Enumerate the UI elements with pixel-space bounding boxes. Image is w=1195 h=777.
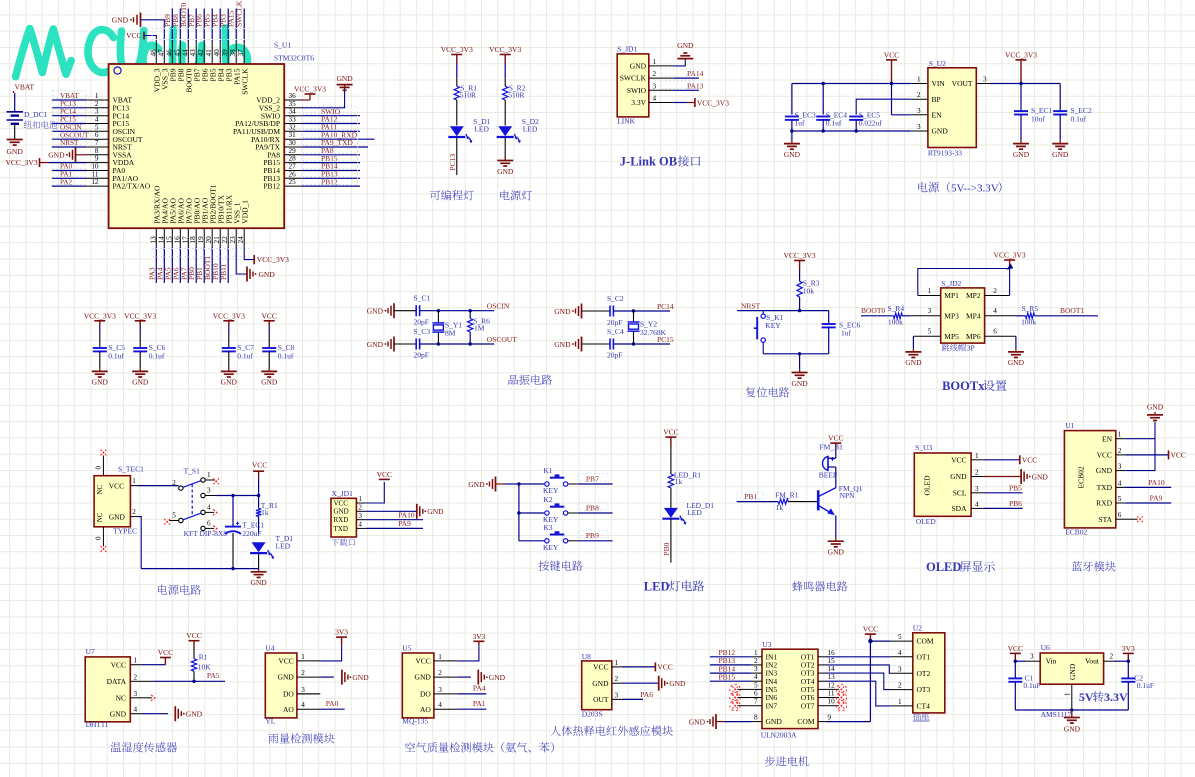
svg-text:PB7: PB7 <box>586 474 599 483</box>
wire EC1 to ground <box>1020 115 1022 141</box>
svg-text:AO: AO <box>420 705 431 714</box>
pin 2 PC13 <box>86 107 109 109</box>
svg-text:YL: YL <box>265 717 275 726</box>
wire VCC to COM <box>869 634 871 641</box>
svg-text:VCC: VCC <box>415 657 430 666</box>
svg-text:RT9193-33: RT9193-33 <box>928 149 962 158</box>
svg-text:U3: U3 <box>762 640 771 649</box>
svg-text:4: 4 <box>359 522 363 529</box>
svg-text:6: 6 <box>95 131 99 139</box>
svg-text:2: 2 <box>134 673 138 681</box>
wire bottom rail ams <box>1015 709 1128 711</box>
svg-text:VCC: VCC <box>252 461 267 470</box>
pin 3 VOUT <box>976 83 990 85</box>
svg-text:19: 19 <box>197 236 205 244</box>
svg-text:S_C4: S_C4 <box>607 327 624 336</box>
svg-text:GND: GND <box>186 710 203 719</box>
svg-text:2: 2 <box>95 100 99 108</box>
caption 晶振电路 <box>509 375 519 385</box>
wire T_D1 to rail <box>258 553 260 569</box>
wire net PA1 <box>52 177 86 179</box>
wire VDDA <box>49 162 86 164</box>
wire VCC to switch <box>138 485 179 487</box>
wire net SWIO <box>302 115 361 117</box>
svg-text:3: 3 <box>207 487 211 495</box>
svg-text:VOUT: VOUT <box>952 79 973 88</box>
svg-text:20pF: 20pF <box>414 351 429 360</box>
svg-text:NC: NC <box>96 512 104 522</box>
svg-text:GND: GND <box>592 679 609 688</box>
no connect IN5 <box>737 688 751 690</box>
wire GND uln <box>725 721 752 723</box>
svg-text:GND: GND <box>92 378 109 387</box>
svg-text:U8: U8 <box>582 652 591 661</box>
svg-text:VCC_3V3: VCC_3V3 <box>697 98 729 107</box>
regulator U6 AMS1117 <box>1040 653 1103 684</box>
svg-text:D203S: D203S <box>582 709 603 718</box>
svg-text:OT3: OT3 <box>917 685 931 694</box>
pin 43 PB7 <box>195 42 197 64</box>
key K2 <box>519 512 545 514</box>
ground below S_C8 <box>268 368 270 371</box>
wire net PB3 <box>227 9 229 43</box>
svg-text:4: 4 <box>898 649 902 657</box>
pin 26 PB13 <box>284 177 301 179</box>
svg-text:VCC_3V3: VCC_3V3 <box>994 251 1026 260</box>
svg-text:2: 2 <box>917 91 921 99</box>
svg-text:OT7: OT7 <box>801 701 815 710</box>
pin 3 GND <box>1116 470 1125 472</box>
pin 2 GND <box>971 476 983 478</box>
svg-text:10k: 10k <box>803 287 815 296</box>
wire net PA11 <box>302 130 361 132</box>
wire net PA10_RXD <box>302 138 375 140</box>
pin 2 GND <box>356 510 365 512</box>
svg-text:S_R4: S_R4 <box>888 304 905 313</box>
svg-text:3: 3 <box>134 690 138 698</box>
pin 24 VDD_1 <box>243 228 245 246</box>
pin 12 PA2/TX/AO <box>86 185 109 187</box>
svg-text:GND: GND <box>791 379 808 388</box>
no connect OT5 <box>826 688 839 690</box>
pin 41 PB5 <box>211 42 213 64</box>
svg-text:GND: GND <box>1013 150 1030 159</box>
crystal S_Y2 32.768K <box>633 311 635 322</box>
svg-text:T_S1: T_S1 <box>184 467 201 476</box>
pin 6 IN6 <box>752 697 762 699</box>
connector TEC1 TYPEC <box>94 476 130 527</box>
power flag VCC download <box>379 478 390 480</box>
wire VSS_1 to ground <box>236 246 247 274</box>
svg-text:1: 1 <box>615 659 619 667</box>
svg-text:GND: GND <box>489 673 506 682</box>
svg-text:VBAT: VBAT <box>15 82 35 91</box>
svg-text:S_JD2: S_JD2 <box>941 279 961 288</box>
transistor FM_Q1 NPN <box>817 490 820 510</box>
power flag 3V3 u5 <box>473 640 484 642</box>
svg-text:GND: GND <box>1068 663 1077 680</box>
logo MCUclub <box>16 28 248 93</box>
pin 3 IN3 <box>752 672 762 674</box>
svg-text:PA6: PA6 <box>640 690 653 699</box>
wire net OSCOUT <box>52 138 86 140</box>
svg-text:3: 3 <box>917 107 921 115</box>
svg-text:GND: GND <box>828 548 845 557</box>
ground at VSSA pin 8 <box>75 147 77 162</box>
svg-text:PA0: PA0 <box>326 699 339 708</box>
svg-text:COM: COM <box>917 637 934 646</box>
svg-text:OLED: OLED <box>926 560 961 574</box>
svg-text:GND: GND <box>1008 358 1025 367</box>
svg-text:VCC_3V3: VCC_3V3 <box>257 255 289 264</box>
caption 雨量检测模块 <box>268 734 278 744</box>
svg-text:LED: LED <box>644 580 670 594</box>
wire LED_D1 to PB0 <box>670 519 672 563</box>
svg-text:BEEP: BEEP <box>819 471 837 480</box>
svg-text:STM32C8T6: STM32C8T6 <box>274 54 314 63</box>
wire OUT to PA6 <box>622 698 643 700</box>
svg-text:NPN: NPN <box>840 491 856 500</box>
ground at VSS_3 pin 47 <box>140 13 142 28</box>
caption 空气质量检测模块（氨气、苯） <box>405 742 415 752</box>
svg-text:30: 30 <box>289 139 297 147</box>
svg-text:TXD: TXD <box>334 525 348 533</box>
svg-text:VIN: VIN <box>932 79 946 88</box>
svg-text:2: 2 <box>1118 447 1122 455</box>
svg-text:0.1uf: 0.1uf <box>108 352 124 361</box>
svg-text:3: 3 <box>359 513 363 520</box>
wire net PB0 <box>195 246 197 283</box>
wire net PB4 <box>219 9 221 43</box>
wire GND oled <box>983 476 1021 478</box>
svg-text:1: 1 <box>438 653 442 661</box>
LED T_D1 <box>252 542 266 552</box>
pin 1 VCC <box>434 660 457 662</box>
pin 1 IN1 <box>752 656 762 658</box>
resistor S_R2 510R <box>503 86 508 100</box>
wire VBAT to battery <box>14 93 16 112</box>
svg-text:39: 39 <box>221 49 229 57</box>
svg-text:2: 2 <box>898 682 902 690</box>
svg-text:GND: GND <box>261 378 278 387</box>
svg-text:FM_R1: FM_R1 <box>775 490 799 499</box>
svg-text:GND: GND <box>415 673 432 682</box>
wire S_D2 to ground <box>504 137 506 159</box>
svg-text:J-Link OB: J-Link OB <box>620 155 677 169</box>
pin 46 PB9 <box>171 42 173 64</box>
svg-text:GND: GND <box>48 151 65 160</box>
svg-text:PB0: PB0 <box>662 542 671 555</box>
svg-text:38: 38 <box>229 49 237 57</box>
pin 7 NRST <box>86 146 109 148</box>
svg-text:GND: GND <box>367 307 384 316</box>
svg-text:14: 14 <box>828 665 836 673</box>
svg-text:46: 46 <box>165 49 173 57</box>
pin 17 PA7/AO <box>187 228 189 246</box>
svg-text:NRST: NRST <box>741 301 761 310</box>
svg-text:SWIO: SWIO <box>627 86 647 95</box>
svg-text:VCC: VCC <box>158 648 173 657</box>
pin 13 PA3/RX/AO <box>155 228 157 246</box>
capacitor S_C4 20pF <box>609 339 611 350</box>
wire T_R1 to T_D1 <box>258 517 260 534</box>
wire switch pin3 to VCC node <box>205 495 216 497</box>
svg-text:Vin: Vin <box>1046 656 1057 665</box>
wire S_D1 to PC13 <box>456 137 458 175</box>
svg-text:U1: U1 <box>1065 421 1074 430</box>
svg-text:10: 10 <box>828 698 836 706</box>
caption 电源电路 <box>158 585 167 595</box>
svg-text:GND: GND <box>468 480 485 489</box>
svg-text:GND: GND <box>630 62 647 71</box>
pin 1 VBAT <box>86 99 109 101</box>
svg-text:1uf: 1uf <box>795 119 806 128</box>
svg-text:PB9: PB9 <box>586 531 599 540</box>
svg-text:20pF: 20pF <box>607 351 622 360</box>
wire to S_C7 <box>228 321 230 326</box>
wire VDD_3 <box>145 36 157 43</box>
pin 2 OT3 socket <box>890 689 912 691</box>
ground typec <box>258 569 260 572</box>
power flag VCC oled <box>1019 455 1021 464</box>
module U4 YL <box>265 653 297 718</box>
svg-text:32: 32 <box>289 123 297 131</box>
svg-text:LED: LED <box>276 542 291 551</box>
wire pin5 to ground <box>912 336 914 348</box>
capacitor C2 0.1uF <box>1127 661 1129 678</box>
power flag VCC led <box>665 436 676 438</box>
pin 2 GND <box>612 682 622 684</box>
svg-text:SCL: SCL <box>953 488 967 497</box>
pin 2 GND <box>130 516 137 518</box>
crystal S_Y1 8M <box>437 311 439 323</box>
svg-text:VCC: VCC <box>278 657 293 666</box>
wire net VBAT <box>52 99 86 101</box>
wire EN bluetooth <box>1125 438 1155 440</box>
svg-text:GND: GND <box>1032 472 1049 481</box>
svg-text:23: 23 <box>229 236 237 244</box>
svg-text:4: 4 <box>653 95 657 103</box>
wire TXD to PA10 <box>1125 486 1171 488</box>
no connect OT7 <box>826 705 839 707</box>
pin 1 VCC <box>971 459 983 461</box>
pin 5 IN5 <box>752 688 762 690</box>
svg-text:GND: GND <box>250 578 267 587</box>
wire base to FM_R1 <box>805 501 818 503</box>
ground below S_C5 <box>99 368 101 371</box>
wire PB13 to IN2 <box>710 664 752 666</box>
svg-text:2: 2 <box>1110 653 1114 661</box>
svg-text:6: 6 <box>993 328 997 336</box>
capacitor C1 0.1uF <box>1014 661 1016 678</box>
wire RXD to PA10 <box>366 519 423 521</box>
wire Vout to 3V3 <box>1114 660 1128 662</box>
svg-text:OSCOUT: OSCOUT <box>487 335 517 344</box>
capacitor S_C5 0.1uf <box>93 347 107 349</box>
ground below EC1 <box>1020 140 1022 143</box>
wire ground rail under caps <box>791 120 793 131</box>
svg-text:IN7: IN7 <box>766 701 778 710</box>
svg-text:VCC_3V3: VCC_3V3 <box>441 45 473 54</box>
ground at VSS_1 <box>246 267 248 282</box>
svg-text:1: 1 <box>1118 431 1122 439</box>
power flag VCC u8 <box>654 662 656 671</box>
wire STA no connect <box>1125 518 1137 520</box>
svg-text:PB11: PB11 <box>219 263 228 280</box>
svg-text:42: 42 <box>197 49 205 57</box>
ground below S_C6 <box>139 368 141 371</box>
wire VCC pin1 <box>366 482 385 503</box>
wire to ground ams <box>1071 710 1073 718</box>
pin 4 PC15 <box>86 123 109 125</box>
svg-text:1: 1 <box>134 657 138 665</box>
wire EC2 to ground <box>1059 115 1061 141</box>
svg-text:41: 41 <box>205 49 213 57</box>
pin 23 VSS_1 <box>235 228 237 246</box>
svg-text:VDD_1: VDD_1 <box>240 200 249 224</box>
wire EC3 to ground <box>791 131 793 140</box>
wire OT4 to socket <box>826 681 890 706</box>
wire net PB7 <box>195 9 197 43</box>
svg-text:44: 44 <box>181 49 189 57</box>
wire net PB10 <box>219 246 221 283</box>
svg-text:VCC_3V3: VCC_3V3 <box>6 158 38 167</box>
svg-text:1k: 1k <box>675 477 683 486</box>
svg-text:3: 3 <box>653 82 657 90</box>
svg-text:VCC_3V3: VCC_3V3 <box>124 311 156 320</box>
pin 4 OT1 socket <box>890 656 912 658</box>
wire S_R1 to S_D1 <box>456 100 458 126</box>
svg-text:SWCLK: SWCLK <box>235 0 244 27</box>
ground dht11 <box>174 706 176 721</box>
sensor U8 D203S <box>582 661 612 710</box>
pin 4 TXD <box>356 527 365 529</box>
pin 10 PA0 <box>86 170 109 172</box>
pin 30 PA9/TX <box>284 146 301 148</box>
no connect OT6 <box>826 697 839 699</box>
wire PB1 to FM_R1 <box>737 501 778 503</box>
power flag VCC above S_C8 <box>264 320 275 322</box>
pin 4 MP4 <box>985 315 1016 317</box>
ground below EC3 <box>791 140 793 143</box>
wire PB12 to IN1 <box>710 656 752 658</box>
pin 1 MP1 <box>918 295 941 297</box>
wire net PC15 <box>52 123 86 125</box>
svg-text:S_JD1: S_JD1 <box>617 45 637 54</box>
wire NRST node to EC6 <box>800 310 829 312</box>
svg-text:VCC: VCC <box>884 50 899 59</box>
power flag VCC_3V3 at VDD_2 pin 36 <box>302 99 311 101</box>
pin 2 IN2 <box>752 664 762 666</box>
svg-text:OSCIN: OSCIN <box>487 302 510 311</box>
svg-text:0.1uF: 0.1uF <box>1137 681 1154 690</box>
svg-text:GND: GND <box>110 709 127 718</box>
svg-text:U2: U2 <box>913 624 922 633</box>
svg-text:13: 13 <box>828 673 836 681</box>
wire to S_R3 <box>799 261 801 271</box>
svg-text:VCC: VCC <box>593 663 608 672</box>
wire GND dht11 <box>142 713 168 715</box>
power flag VCC ams <box>1010 652 1021 654</box>
pin 4 3.3V <box>649 102 673 104</box>
svg-text:0.1uf: 0.1uf <box>826 119 842 128</box>
svg-text:DHT11: DHT11 <box>86 720 109 729</box>
svg-text:BOOT1: BOOT1 <box>1060 306 1084 315</box>
svg-text:PA9: PA9 <box>398 519 411 528</box>
ground below battery <box>7 139 23 141</box>
svg-text:31: 31 <box>289 131 297 139</box>
wire S_R4 to pin3 <box>902 315 910 317</box>
svg-text:510R: 510R <box>460 91 476 100</box>
pin 4 TXD <box>1116 486 1125 488</box>
svg-text:48: 48 <box>149 49 157 57</box>
svg-text:15: 15 <box>828 657 836 665</box>
caption 步进电机 <box>765 756 775 766</box>
svg-text:14: 14 <box>157 236 165 244</box>
svg-text:2: 2 <box>993 287 997 295</box>
ground ams <box>1064 717 1080 719</box>
svg-text:12: 12 <box>91 178 99 186</box>
svg-text:9: 9 <box>828 714 832 722</box>
pin 3 Vin <box>1026 660 1040 662</box>
capacitor S_EC5 0.022uf <box>849 116 863 118</box>
svg-text:U5: U5 <box>402 643 411 652</box>
wire VSS_3 <box>141 20 165 42</box>
display U3 OLED <box>914 453 971 516</box>
caption 复位电路 <box>746 387 756 397</box>
svg-text:S_U1: S_U1 <box>274 41 291 50</box>
pin 3 RXD <box>356 519 365 521</box>
svg-text:MQ-135: MQ-135 <box>402 717 428 726</box>
svg-text:GND: GND <box>669 679 686 688</box>
svg-text:VCC: VCC <box>377 470 392 479</box>
ground download <box>416 504 418 519</box>
svg-text:DO: DO <box>420 690 431 699</box>
wire DO u4 <box>297 693 320 695</box>
wire VCC oled <box>983 459 1020 461</box>
capacitor S_EC2 0.1uf <box>1059 84 1061 112</box>
wire NRST <box>737 310 800 312</box>
resistor S_R3 10k <box>797 281 802 297</box>
power flag VCC_3V3 at JD1 pin 4 <box>694 98 696 107</box>
ground u4 <box>341 670 343 685</box>
wire OSCIN row <box>420 310 495 312</box>
pin 13 OT4 <box>818 680 826 682</box>
svg-text:1: 1 <box>132 477 136 485</box>
value 下载口 <box>331 539 339 546</box>
svg-text:PC14: PC14 <box>657 302 674 311</box>
svg-text:47: 47 <box>157 49 165 57</box>
power flag VCC_3V3 above S_C6 <box>135 320 146 322</box>
pin 3 PC14 <box>86 115 109 117</box>
wire net OSCIN <box>52 130 86 132</box>
svg-text:16: 16 <box>828 649 836 657</box>
pin 25 PB12 <box>284 185 301 187</box>
svg-text:GND: GND <box>950 472 967 481</box>
svg-text:33: 33 <box>289 116 297 124</box>
svg-text:SWCLK: SWCLK <box>620 74 647 83</box>
svg-text:PB5: PB5 <box>1009 484 1022 493</box>
svg-text:1: 1 <box>917 76 921 84</box>
wire net PA8 <box>302 154 361 156</box>
svg-text:GND: GND <box>554 340 571 349</box>
pin 18 PB0/AO <box>195 228 197 246</box>
svg-text:Vout: Vout <box>1085 656 1100 665</box>
svg-text:37: 37 <box>237 49 245 57</box>
wire VSS_2 to ground <box>302 87 345 108</box>
svg-text:10: 10 <box>91 163 99 171</box>
pin 8 GND <box>752 721 762 723</box>
